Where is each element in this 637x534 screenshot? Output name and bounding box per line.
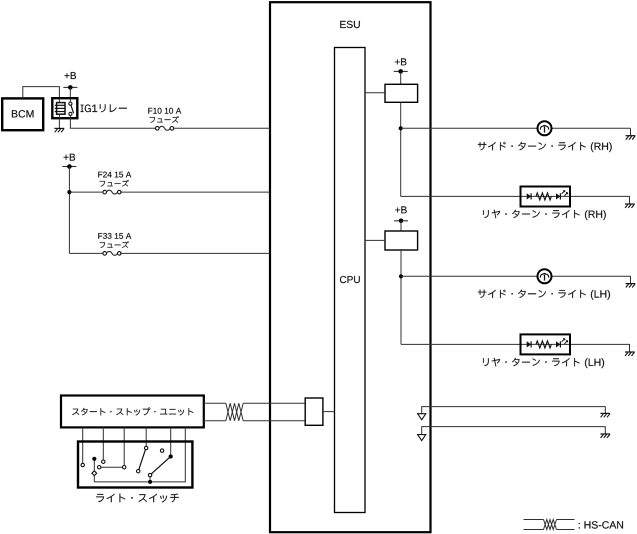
wire relay to fuse F10 [70,118,155,128]
lamp side turn light LH [538,269,552,283]
label F33 15 A [98,233,131,239]
wire relay coil to ground [58,118,60,128]
fuse F24 [103,190,107,194]
switch link wire [101,466,123,468]
relay IG1 contact [69,102,72,105]
switch terminal 5 [160,449,163,452]
junction driver 2 [399,274,403,278]
wire fuse F33 to ESU [120,252,270,254]
label IG1 relay [81,104,127,112]
junction +B feed [67,190,71,194]
LED lamp rear turn LH [521,334,571,354]
CAN connector arrow 2 [418,435,426,441]
switch terminal 1 [81,463,84,466]
ground (CAN 2) [600,433,610,435]
wire BCM to IG1 relay coil [23,87,60,99]
twisted pair wire top [204,402,226,404]
ground (rear turn RH) [625,203,635,205]
relay IG1 coil [57,103,65,115]
label CPU [340,276,360,283]
ground (IG1 relay) [55,127,65,129]
switch pole dot [92,457,96,461]
label side turn light LH [478,290,586,298]
switch arm 1 [139,450,146,470]
label HS-CAN [579,521,623,528]
start-stop unit box [61,396,204,428]
wire switch 2 [102,427,104,460]
wire +B feed vertical [68,167,70,254]
wire +B to driver 2 [400,221,402,231]
label BCM [12,110,34,117]
wire to rear turn light RH [401,196,630,204]
ground (side turn LH) [626,283,636,285]
CAN wire 2 [422,427,606,435]
driver box 1 [385,84,418,102]
switch arm 2 [151,458,169,474]
wire +B to relay contact [69,87,71,98]
driver box 2 [385,231,418,250]
label start stop unit [72,408,193,416]
ground (CAN 1) [600,412,610,414]
wire arm 2 to bus [149,477,151,482]
label rear turn light RH [483,210,580,219]
wire switch 1 [82,427,84,463]
fuse F33 [103,252,107,256]
wire to rear turn light LH [401,344,630,352]
module box BCM [2,98,43,130]
connector box in ESU [305,398,323,425]
twisted pair symbol [226,403,243,421]
wire to side turn light RH [401,127,538,129]
relay IG1 box [52,98,77,118]
fuse F10 [156,127,160,131]
switch arm 2 top dot [169,454,173,458]
label F24 15 A [98,172,131,178]
light switch box [78,442,192,488]
label ESU [340,21,360,28]
ground (side turn RH) [626,135,636,137]
junction driver 1 [399,126,403,130]
ground (rear turn LH) [625,351,635,353]
label fuse F24 [100,180,129,187]
wire +B to fuse F24 [69,191,103,193]
switch link terminal L [98,466,101,469]
power +B (driver 2) [395,206,407,213]
wire switch 6 [94,427,185,482]
ECU outer box ESU [270,2,431,532]
wire fuse F24 to ESU [120,191,270,193]
wire CPU to driver 1 [365,92,385,94]
label F10 10 A [148,108,181,114]
legend twisted pair lines [524,519,544,521]
label light switch [96,494,179,503]
wire switch 5 [170,427,172,455]
power +B (driver 1) [395,58,407,65]
label rear turn light LH [483,358,580,367]
wire CPU to driver 2 [365,239,385,241]
label fuse F10 [150,116,179,123]
label side turn light RH [478,142,586,150]
power +B (IG1 relay) [65,72,77,79]
twisted pair wire bottom [204,420,226,422]
legend twisted pair symbol [544,520,557,530]
wire +B to fuse F33 [69,252,103,254]
junction bus [148,480,152,484]
CPU box [335,48,366,513]
switch terminal 3 [123,466,126,469]
wire fuse F10 to ESU [174,127,270,129]
label fuse F33 [100,241,129,248]
wire switch 4 [145,427,147,446]
switch arm 1 pivot [137,470,140,473]
wire driver 2 output [400,250,402,344]
switch arm 2 pivot [148,473,151,476]
wire connector to CPU [323,411,335,413]
CAN connector arrow 1 [418,414,426,420]
wire to side turn light LH [401,275,538,277]
power +B (fuse feed) [64,154,76,161]
lamp side turn light RH [538,121,552,135]
switch terminal 4 [145,446,148,449]
switch diamond contact [92,471,97,476]
switch terminal 2 [102,460,105,463]
wire switch 3 [123,427,125,465]
LED lamp rear turn RH [521,187,571,207]
CAN wire 1 [422,407,606,414]
switch pole line [93,459,95,482]
wire +B to driver 1 [400,71,402,84]
wire driver 1 output [400,102,402,196]
